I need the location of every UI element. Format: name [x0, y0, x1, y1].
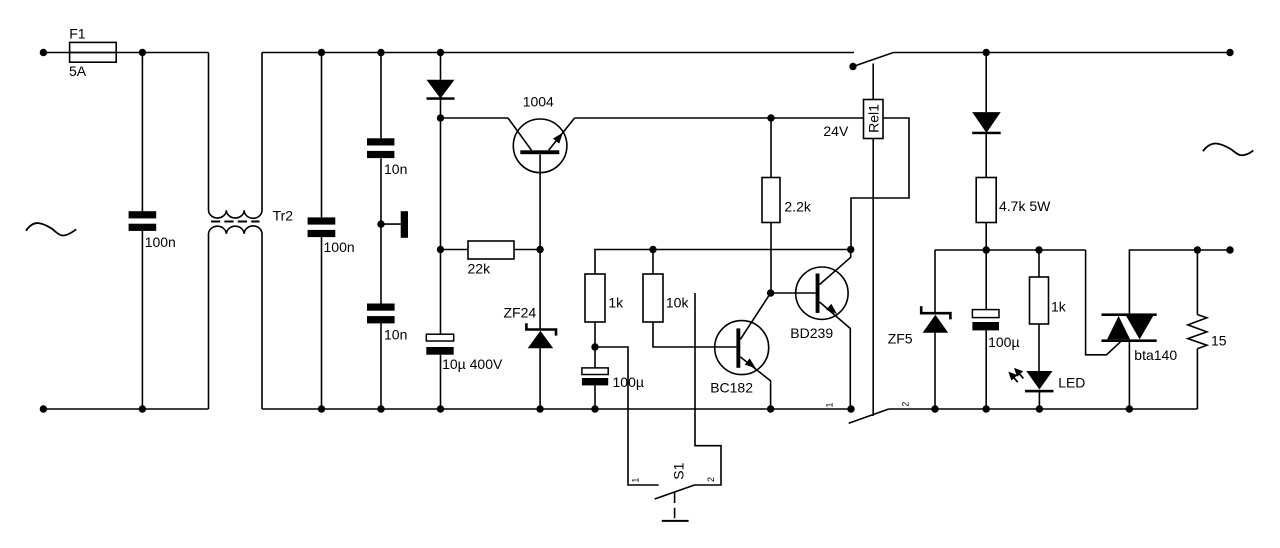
svg-text:15: 15 [1211, 332, 1227, 348]
svg-text:100µ: 100µ [988, 334, 1019, 350]
svg-text:100n: 100n [145, 234, 176, 250]
svg-text:2.2k: 2.2k [784, 199, 811, 215]
svg-text:ZF24: ZF24 [504, 304, 537, 320]
svg-text:10k: 10k [666, 295, 690, 311]
svg-text:LED: LED [1058, 375, 1085, 391]
svg-text:10n: 10n [384, 161, 407, 177]
svg-text:S1: S1 [671, 462, 687, 479]
svg-text:1k: 1k [1051, 299, 1067, 315]
svg-text:bta140: bta140 [1134, 347, 1177, 363]
svg-text:10µ 400V: 10µ 400V [442, 356, 503, 372]
svg-text:F1: F1 [69, 26, 86, 42]
svg-text:100µ: 100µ [613, 374, 644, 390]
svg-text:1: 1 [631, 478, 641, 483]
svg-text:2: 2 [901, 402, 911, 407]
svg-text:ZF5: ZF5 [888, 330, 913, 346]
svg-text:Rel1: Rel1 [866, 104, 882, 133]
svg-text:5A: 5A [69, 63, 87, 79]
svg-text:22k: 22k [468, 261, 492, 277]
svg-text:2: 2 [706, 477, 716, 482]
svg-text:BD239: BD239 [790, 325, 833, 341]
svg-text:100n: 100n [324, 239, 355, 255]
svg-text:1k: 1k [608, 295, 624, 311]
svg-text:4.7k 5W: 4.7k 5W [999, 198, 1051, 214]
svg-text:1: 1 [825, 402, 835, 407]
svg-text:1004: 1004 [523, 93, 554, 109]
svg-text:BC182: BC182 [710, 380, 753, 396]
svg-text:24V: 24V [823, 123, 849, 139]
svg-text:10n: 10n [384, 326, 407, 342]
svg-text:Tr2: Tr2 [273, 208, 294, 224]
